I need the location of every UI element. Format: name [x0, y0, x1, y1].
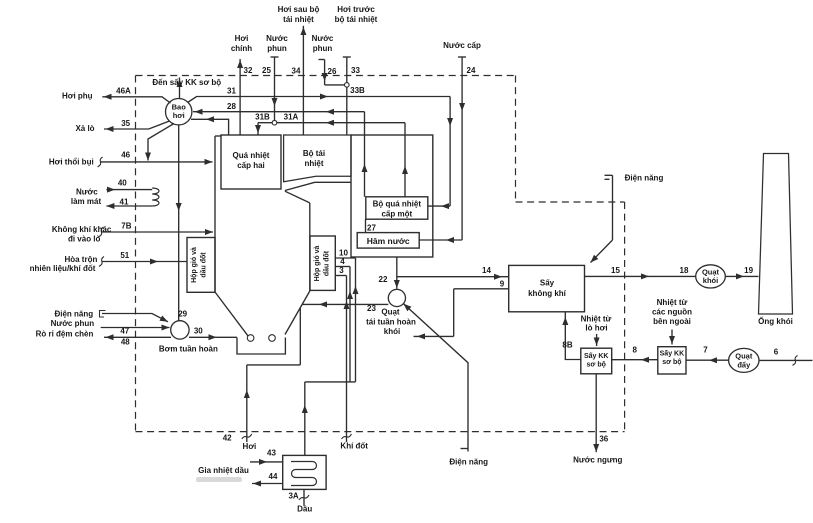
svg-text:Quá nhiệt: Quá nhiệt [233, 151, 270, 160]
svg-text:Hơi: Hơi [235, 34, 249, 43]
svg-text:27: 27 [367, 224, 376, 233]
svg-text:22: 22 [379, 275, 388, 284]
svg-text:Hơi: Hơi [243, 442, 257, 451]
svg-text:Dầu: Dầu [297, 505, 312, 514]
svg-text:Điện năng: Điện năng [625, 174, 664, 183]
svg-text:tái tuần hoàn: tái tuần hoàn [366, 318, 416, 327]
svg-text:sơ bộ: sơ bộ [587, 362, 606, 369]
svg-text:35: 35 [121, 119, 130, 128]
svg-text:đẩy: đẩy [737, 361, 751, 370]
svg-text:Rò rỉ đệm chèn: Rò rỉ đệm chèn [36, 330, 94, 339]
svg-text:các nguồn: các nguồn [652, 308, 692, 317]
svg-text:khói: khói [384, 327, 400, 336]
svg-text:phun: phun [313, 44, 333, 53]
svg-text:Nhiệt từ: Nhiệt từ [657, 298, 688, 307]
svg-text:hơi: hơi [173, 111, 185, 120]
svg-text:32: 32 [244, 66, 253, 75]
svg-text:40: 40 [118, 179, 127, 188]
svg-text:Hơi thổi bụi: Hơi thổi bụi [49, 158, 94, 167]
svg-text:48: 48 [121, 338, 130, 347]
svg-text:15: 15 [611, 266, 620, 275]
svg-text:làm mát: làm mát [71, 197, 102, 206]
svg-text:46A: 46A [116, 87, 131, 96]
svg-text:bên ngoài: bên ngoài [653, 317, 691, 326]
svg-text:Bộ quá nhiệt: Bộ quá nhiệt [373, 200, 422, 209]
svg-text:Sấy: Sấy [540, 279, 555, 288]
svg-text:nhiên liệu/khí đốt: nhiên liệu/khí đốt [30, 264, 96, 273]
svg-text:khói: khói [703, 276, 718, 285]
svg-text:Nước ngưng: Nước ngưng [573, 456, 622, 465]
svg-text:18: 18 [680, 266, 689, 275]
svg-text:Ống khói: Ống khói [758, 316, 793, 326]
svg-text:Hơi trước: Hơi trước [337, 5, 375, 14]
svg-text:Điện năng: Điện năng [449, 458, 488, 467]
svg-text:41: 41 [120, 198, 129, 207]
svg-text:29: 29 [178, 310, 187, 319]
svg-text:Hơi phụ: Hơi phụ [62, 92, 93, 101]
svg-text:28: 28 [227, 102, 236, 111]
svg-text:sơ bộ: sơ bộ [662, 359, 681, 366]
svg-text:43: 43 [267, 449, 276, 458]
svg-text:Quạt: Quạt [735, 352, 753, 361]
svg-text:8B: 8B [562, 341, 572, 350]
svg-text:46: 46 [121, 151, 130, 160]
svg-text:26: 26 [328, 67, 337, 76]
svg-text:14: 14 [482, 266, 491, 275]
svg-text:Nước: Nước [266, 34, 288, 43]
svg-text:Nước phun: Nước phun [51, 319, 95, 328]
svg-text:4: 4 [340, 257, 345, 266]
svg-text:chính: chính [231, 44, 252, 53]
svg-text:Hộp gió và: Hộp gió và [191, 247, 198, 283]
svg-text:phun: phun [267, 44, 287, 53]
svg-text:Khí đốt: Khí đốt [340, 442, 368, 451]
svg-text:33B: 33B [350, 86, 365, 95]
svg-text:31B: 31B [255, 113, 270, 122]
svg-text:Hơi sau bộ: Hơi sau bộ [278, 5, 320, 14]
svg-text:Quạt: Quạt [381, 308, 400, 317]
svg-text:23: 23 [367, 304, 376, 313]
svg-text:lò hơi: lò hơi [585, 324, 607, 333]
svg-text:Nước: Nước [76, 188, 98, 197]
svg-text:31: 31 [227, 87, 236, 96]
svg-text:51: 51 [120, 251, 129, 260]
svg-text:Nước cấp: Nước cấp [443, 41, 481, 50]
svg-text:Sấy KK: Sấy KK [584, 352, 609, 360]
svg-text:36: 36 [599, 435, 608, 444]
svg-text:Điện năng: Điện năng [54, 310, 93, 319]
svg-text:Nhiệt từ: Nhiệt từ [581, 315, 612, 324]
svg-text:33: 33 [351, 66, 360, 75]
svg-text:dầu đốt: dầu đốt [322, 250, 331, 276]
svg-text:nhiệt: nhiệt [304, 159, 323, 168]
svg-text:cấp một: cấp một [381, 210, 412, 219]
svg-text:44: 44 [269, 472, 278, 481]
svg-text:Xả lò: Xả lò [75, 124, 94, 133]
svg-text:31A: 31A [284, 113, 299, 122]
svg-text:đi vào lò: đi vào lò [68, 235, 101, 244]
svg-text:24: 24 [467, 66, 476, 75]
svg-text:Đến sấy KK sơ bộ: Đến sấy KK sơ bộ [152, 78, 221, 87]
svg-text:Bơm tuần hoàn: Bơm tuần hoàn [159, 345, 218, 354]
svg-text:Gia nhiệt dầu: Gia nhiệt dầu [198, 466, 249, 475]
svg-text:bộ tái nhiệt: bộ tái nhiệt [335, 15, 378, 24]
svg-text:25: 25 [262, 66, 271, 75]
svg-text:34: 34 [292, 67, 301, 76]
svg-text:7: 7 [703, 346, 708, 355]
svg-text:Sấy KK: Sấy KK [660, 350, 685, 358]
svg-text:19: 19 [744, 266, 753, 275]
svg-text:Hộp gió và: Hộp gió và [314, 246, 321, 282]
svg-text:9: 9 [500, 280, 505, 289]
svg-text:42: 42 [223, 434, 232, 443]
svg-text:dầu đốt: dầu đốt [199, 252, 208, 278]
svg-text:8: 8 [632, 346, 637, 355]
svg-text:47: 47 [120, 327, 129, 336]
svg-text:Hòa trộn: Hòa trộn [64, 255, 97, 264]
svg-text:3: 3 [339, 266, 344, 275]
svg-text:cấp hai: cấp hai [237, 161, 265, 170]
svg-text:30: 30 [194, 327, 203, 336]
svg-text:Bộ tái: Bộ tái [303, 149, 325, 158]
svg-text:7B: 7B [121, 222, 131, 231]
svg-text:6: 6 [774, 348, 779, 357]
svg-text:3A: 3A [288, 492, 298, 501]
svg-text:Nước: Nước [312, 34, 334, 43]
svg-text:Không khí khác: Không khí khác [52, 225, 112, 234]
svg-text:tái nhiệt: tái nhiệt [283, 15, 314, 24]
svg-text:không khí: không khí [528, 289, 567, 298]
svg-text:Hâm nước: Hâm nước [367, 236, 410, 246]
